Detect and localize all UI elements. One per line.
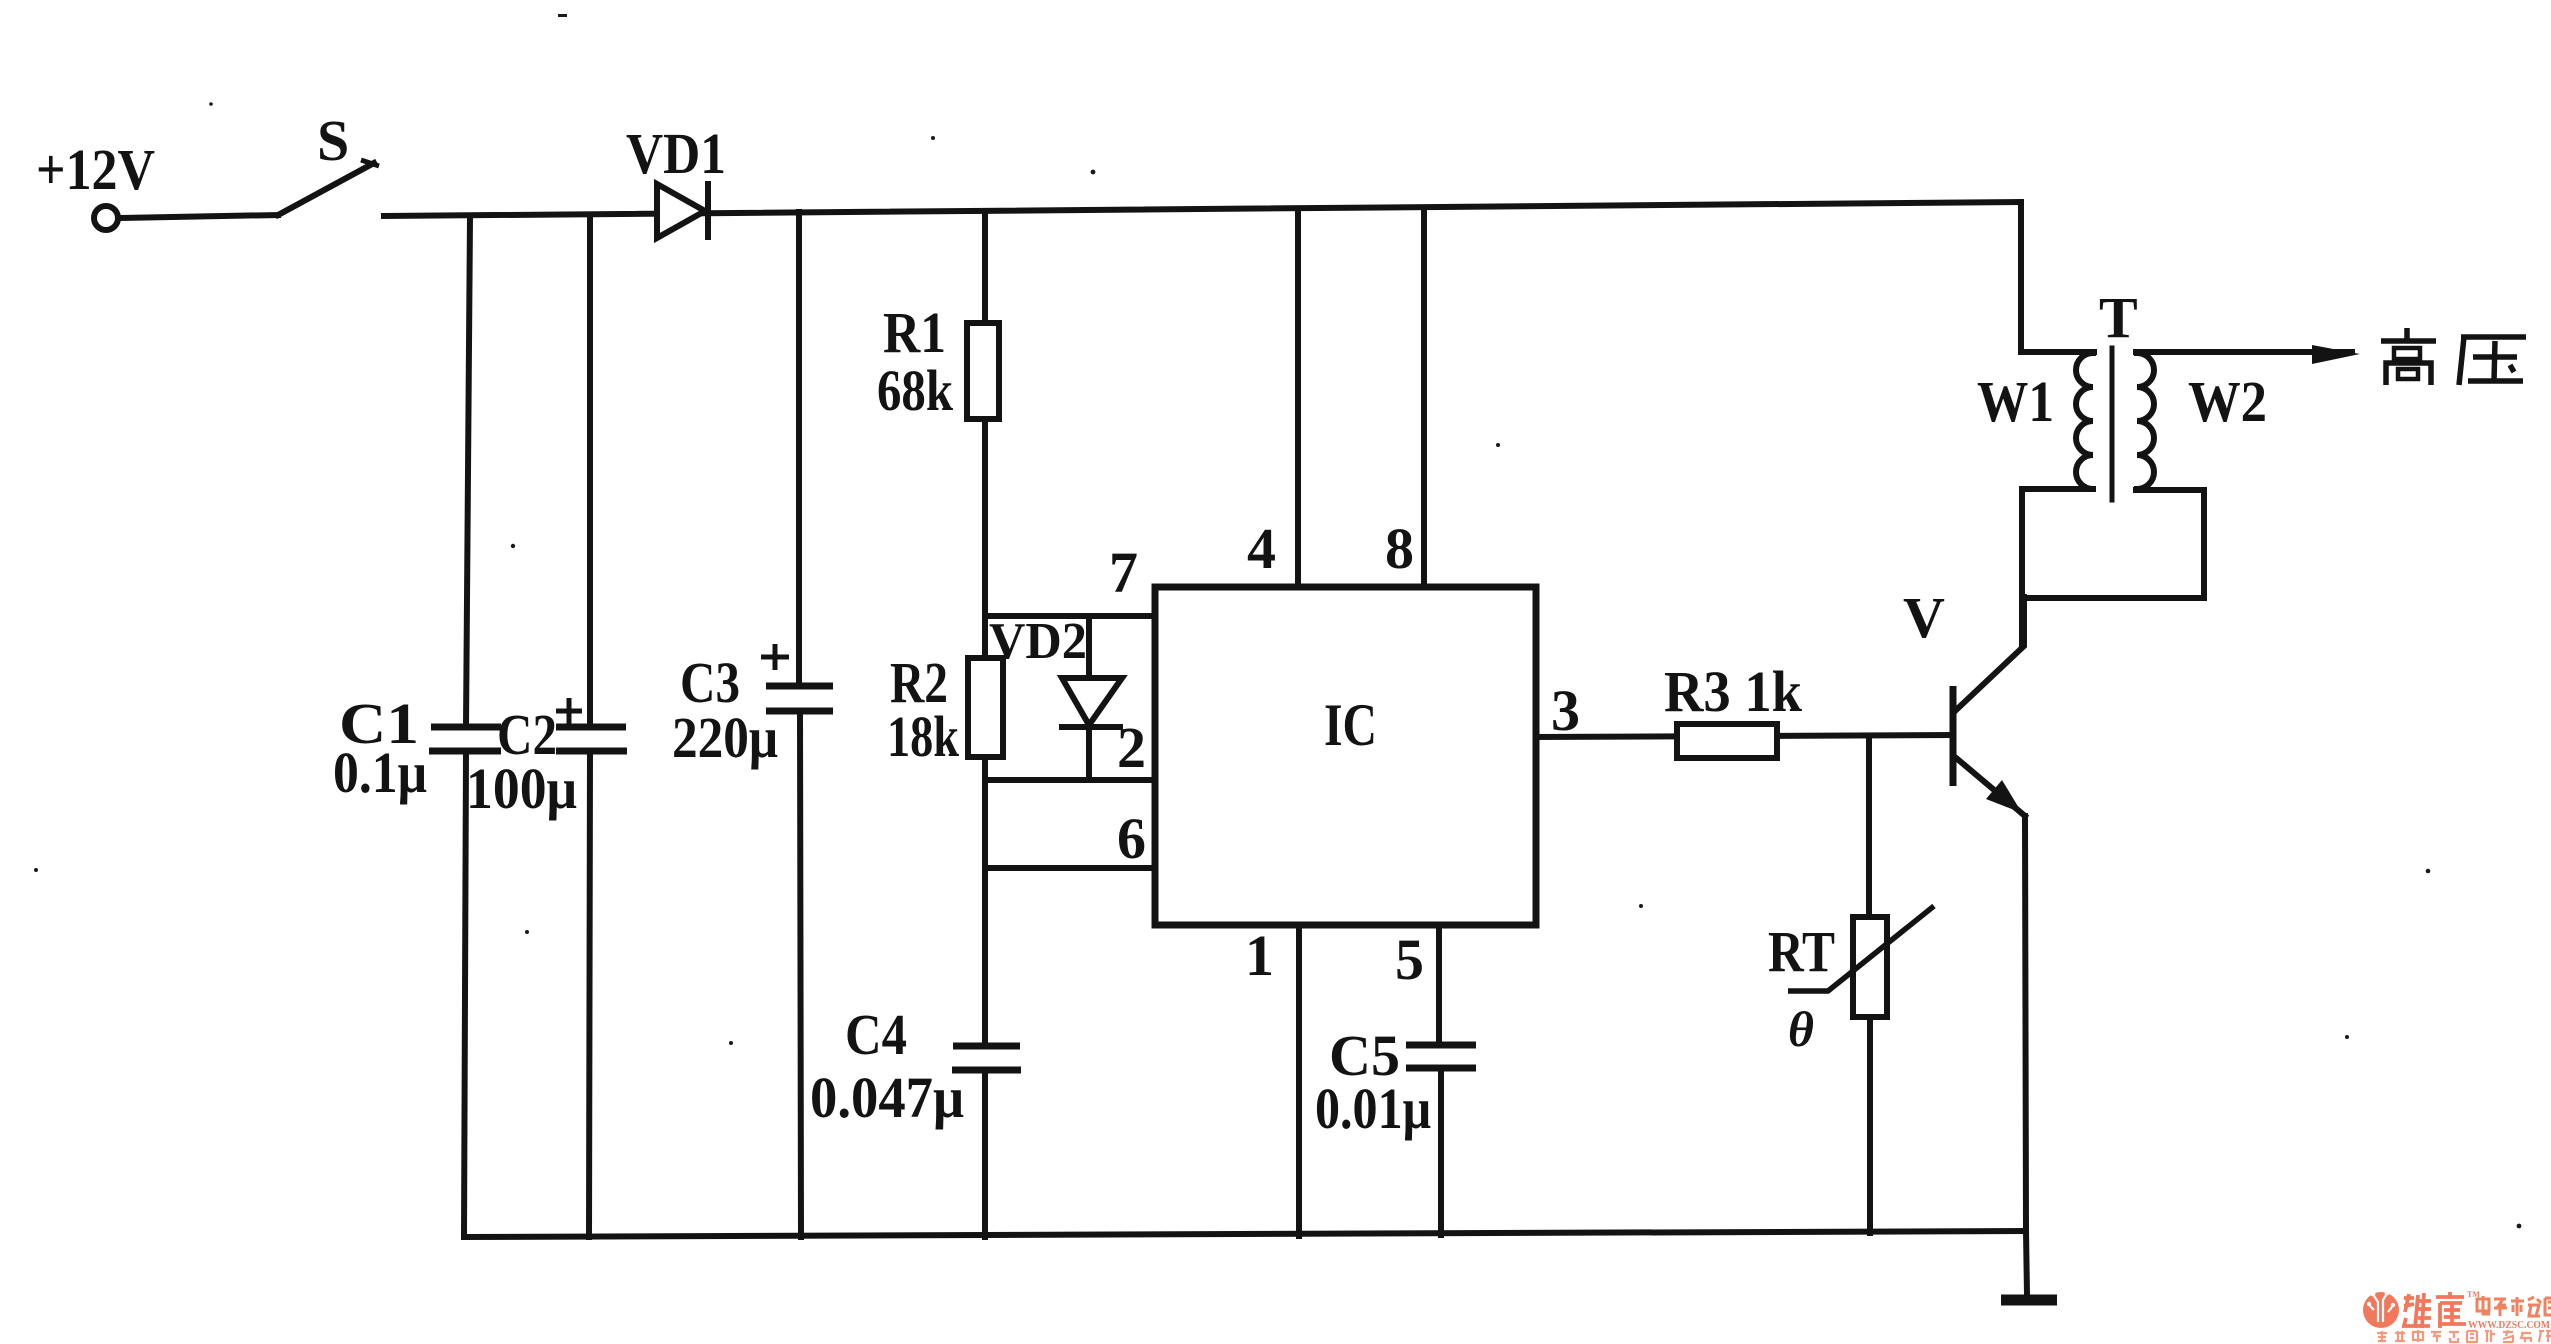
svg-text:C4: C4: [845, 1002, 907, 1067]
svg-text:0.047μ: 0.047μ: [810, 1065, 964, 1130]
svg-text:R3 1k: R3 1k: [1664, 659, 1803, 724]
svg-text:WWW.DZSC.COM: WWW.DZSC.COM: [2468, 1319, 2551, 1331]
svg-text:θ: θ: [1788, 1001, 1814, 1057]
svg-text:18k: 18k: [887, 704, 960, 769]
svg-text:4: 4: [1247, 516, 1276, 581]
svg-text:3: 3: [1551, 678, 1580, 743]
svg-text:6: 6: [1117, 806, 1146, 871]
svg-text:100μ: 100μ: [466, 756, 577, 821]
svg-text:VD1: VD1: [626, 121, 726, 186]
svg-text:7: 7: [1109, 540, 1138, 605]
svg-text:V: V: [1903, 585, 1945, 650]
svg-text:0.01μ: 0.01μ: [1315, 1076, 1431, 1141]
svg-text:TM: TM: [2467, 1290, 2480, 1299]
svg-text:VD2: VD2: [989, 613, 1087, 670]
svg-text:W2: W2: [2188, 369, 2267, 434]
svg-text:R1: R1: [883, 300, 946, 365]
svg-text:1: 1: [1245, 923, 1274, 988]
svg-text:S: S: [317, 108, 349, 173]
svg-text:T: T: [2099, 285, 2138, 350]
svg-text:2: 2: [1117, 715, 1146, 780]
svg-text:68k: 68k: [877, 358, 954, 423]
svg-text:RT: RT: [1768, 919, 1835, 984]
svg-text:8: 8: [1385, 516, 1414, 581]
svg-text:0.1μ: 0.1μ: [333, 740, 427, 805]
svg-text:220μ: 220μ: [672, 705, 778, 770]
svg-text:IC: IC: [1324, 692, 1377, 758]
svg-text:+12V: +12V: [36, 137, 155, 202]
svg-text:5: 5: [1395, 927, 1424, 992]
svg-text:W1: W1: [1977, 369, 2054, 434]
